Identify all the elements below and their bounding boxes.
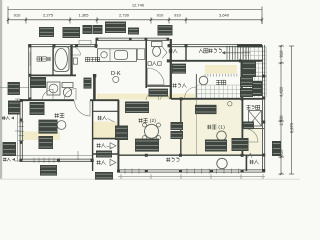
dimension line segments row — [8, 19, 262, 21]
wall washroom/DK divider — [93, 75, 96, 100]
leader line left washroom — [0, 87, 29, 89]
window ticks left wall — [19, 121, 24, 123]
outer wall left upper — [28, 45, 30, 100]
wall hall east / genkan — [195, 74, 197, 99]
left margin caption 1 — [2, 116, 6, 118]
outer wall DK top — [96, 37, 169, 39]
svg-text:910: 910 — [174, 13, 181, 18]
wall genkan east — [241, 61, 243, 100]
wall storage bottom-right west — [245, 155, 247, 171]
label monoire br — [250, 160, 254, 162]
wall toilet west — [145, 39, 147, 88]
yoshitsu stool circle — [57, 121, 66, 130]
closet arrows — [110, 143, 116, 149]
label engawa — [166, 158, 170, 160]
svg-text:1,365: 1,365 — [78, 13, 89, 18]
bottom-right room tint — [244, 128, 263, 155]
yoshitsu cream strip — [22, 132, 60, 141]
outer wall right — [262, 45, 264, 172]
washroom door arc — [42, 90, 53, 101]
washitsu2 table — [145, 124, 159, 138]
tokonoma x-box — [249, 111, 262, 127]
window ticks veranda south — [124, 169, 126, 174]
washroom door arc 2 — [64, 88, 76, 100]
storage door arc bottom right — [245, 129, 259, 143]
hall door arc — [185, 87, 197, 98]
corridor south wall left — [21, 99, 74, 101]
label monoire top — [169, 49, 173, 51]
washroom cabinet — [30, 77, 46, 88]
bathroom door arc — [73, 47, 81, 55]
hall strip divider — [195, 99, 197, 154]
bathtub — [53, 46, 69, 71]
wall washitsu1 east / tokonoma — [241, 99, 243, 155]
wall washitsu south / veranda north — [118, 154, 265, 156]
label monoire low — [97, 161, 101, 163]
wall washitsu1 west — [180, 99, 182, 155]
outer wall top right — [168, 44, 262, 46]
veranda post circle — [217, 158, 227, 168]
toilet lower — [62, 83, 73, 88]
label genkan — [216, 79, 221, 81]
washitsu2 room tint — [119, 101, 180, 155]
genkan post circle — [199, 76, 208, 85]
exterior stairs hatch — [226, 46, 228, 60]
washitsu1 room tint — [182, 99, 243, 154]
porch step hatch — [204, 74, 206, 77]
yoshitsu door arc — [75, 101, 91, 117]
washbasin — [47, 82, 60, 95]
label washitsu2 — [139, 119, 143, 121]
corridor door arcs — [146, 94, 159, 101]
small circle washitsu1 NE — [228, 102, 232, 106]
wall monoire top right — [185, 45, 187, 61]
label washitsu1 — [207, 125, 211, 127]
outer wall left lower — [19, 100, 21, 160]
label monoire mid — [97, 144, 101, 146]
dimension line overall 12,740 — [8, 9, 262, 11]
svg-text:2,275: 2,275 — [43, 13, 54, 18]
corridor south wall right / washitsu north — [171, 98, 262, 100]
closet tint upper — [93, 122, 117, 139]
corridor south wall mid — [90, 99, 119, 101]
svg-text:2,730: 2,730 — [279, 115, 284, 126]
window annotation boxes — [39, 27, 54, 37]
fridge — [137, 49, 145, 60]
entrance porch tint — [205, 65, 237, 74]
outer wall bottom veranda — [118, 169, 265, 171]
right dimension line inner — [280, 46, 282, 174]
svg-text:910: 910 — [279, 50, 284, 58]
wall closet rows — [93, 110, 118, 112]
bottom dimension line — [118, 176, 265, 178]
left vertical dim line — [17, 99, 19, 161]
scan edge left strip — [0, 0, 2, 180]
svg-text:8,970: 8,970 — [289, 122, 294, 133]
svg-text:12,740: 12,740 — [132, 3, 145, 8]
label katteguchi — [86, 57, 90, 61]
svg-text:910: 910 — [14, 13, 21, 18]
label furoba — [37, 57, 41, 61]
label tokonoma — [247, 105, 251, 107]
wall bath/tub east — [70, 45, 72, 75]
wall closet column west — [92, 100, 94, 171]
label oshiire — [98, 116, 102, 118]
label yoshitsu — [55, 113, 60, 115]
svg-text:3,640: 3,640 — [219, 13, 230, 18]
right dimension line outer total 8,970 — [291, 46, 293, 174]
wall DK step — [95, 39, 97, 48]
outer wall top-left section — [29, 44, 97, 46]
genkan tile grid — [196, 85, 198, 99]
outer wall bottom left — [20, 158, 93, 160]
scan edge bottom — [0, 179, 300, 180]
monoire folding door marks — [162, 47, 167, 59]
label gaikaidan — [199, 49, 201, 53]
window ticks bottom wall — [33, 158, 35, 163]
label toilet — [148, 62, 151, 65]
wall bathroom south — [29, 74, 76, 76]
washitsu1 table circle — [217, 131, 227, 141]
outer wall jog — [21, 99, 30, 101]
left margin caption 2 — [3, 158, 7, 160]
svg-text:2,730: 2,730 — [119, 13, 130, 18]
katteguchi doorstep — [79, 40, 91, 45]
outside approach tile grid — [242, 47, 244, 97]
svg-text:4,420: 4,420 — [279, 86, 284, 97]
window gap left upper wall — [28, 52, 31, 66]
corridor wood floor tint — [97, 94, 195, 100]
svg-text:910: 910 — [157, 13, 164, 18]
leader line bottom-left long — [2, 155, 92, 157]
wall toilet east — [170, 39, 172, 99]
kitchen counter — [98, 49, 137, 62]
wall washitsu2 west — [117, 100, 119, 171]
toilet room fixture — [152, 42, 163, 47]
wall bottom-right room north — [242, 128, 264, 130]
toilet door arc — [148, 68, 165, 85]
label hall — [173, 84, 177, 86]
wall stair row south — [168, 60, 262, 62]
wall toilet south — [146, 85, 171, 87]
